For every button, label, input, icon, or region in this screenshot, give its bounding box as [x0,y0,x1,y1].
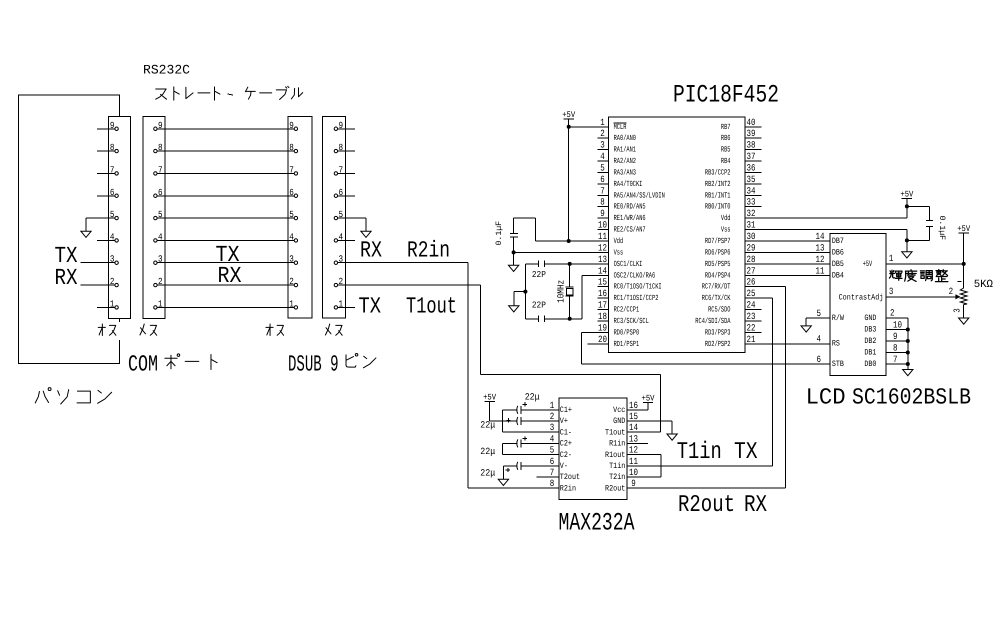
svg-text:22: 22 [747,322,756,333]
label 22u C8 [480,468,495,479]
svg-text:12: 12 [598,242,607,253]
wire OSC2 pin14 down to osc return [545,275,598,319]
svg-text:OSC1/CLKI: OSC1/CLKI [614,260,643,269]
label 0.1uF (left) [495,221,504,246]
svg-text:RS: RS [832,340,840,349]
svg-text:2: 2 [600,128,605,139]
svg-text:3: 3 [889,286,894,297]
ground at U1 Vss [508,265,518,271]
wire Vss to ground [513,252,515,265]
label 22P (top) [532,270,546,280]
svg-text:DB2: DB2 [864,337,876,346]
svg-text:25: 25 [747,288,756,299]
connector J3 DSUB9 male (オス) [288,117,312,319]
svg-text:30: 30 [747,231,756,242]
svg-text:39: 39 [747,128,756,139]
label RX (device side) [360,238,382,264]
wire ContrastAdj pin3 to pot wiper [886,286,956,297]
label メス under J4 [325,324,342,335]
svg-text:5: 5 [550,445,555,456]
svg-text:13: 13 [598,254,607,265]
svg-text:MCLR: MCLR [614,123,627,132]
svg-text:9: 9 [893,331,898,342]
IC U2 MAX232A body [559,398,627,500]
svg-text:0.1µF: 0.1µF [937,216,946,241]
svg-text:DB7: DB7 [832,237,844,246]
svg-text:DSUB 9: DSUB 9 [288,352,339,378]
+5V supply at U2 V+ [483,392,497,402]
svg-text:17: 17 [598,300,607,311]
svg-text:Vcc: Vcc [613,406,625,415]
svg-text:RA1/AN1: RA1/AN1 [614,146,637,155]
wire U1 pin28 to LCD DB5 [745,263,830,265]
svg-text:9: 9 [631,478,636,489]
wire cable conductor pin 6 [158,195,294,197]
svg-text:RB1/INT1: RB1/INT1 [705,191,731,200]
wire cable conductor pin 9 [158,128,294,130]
pot wiper arrow [955,294,960,299]
svg-text:RX: RX [360,238,382,264]
svg-text:6: 6 [289,187,294,198]
svg-text:10: 10 [629,467,638,478]
wire U1 pin31 Vss to ground [745,230,907,252]
svg-text:12: 12 [629,445,638,456]
svg-text:V+: V+ [560,417,568,426]
svg-text:5: 5 [289,209,294,220]
svg-text:4: 4 [289,231,294,242]
svg-text:10MHz: 10MHz [556,280,567,303]
wire OSC1 pin13 [545,263,598,265]
svg-text:8: 8 [600,197,605,208]
wire Vss pin12 [514,251,598,253]
svg-text:RB0/INT0: RB0/INT0 [705,203,731,212]
ground arrow at J4 pin5 [361,231,371,237]
wire +5V rail to pin1 and Vdd pin11 [569,119,598,241]
wire cable conductor pin 8 [158,150,294,152]
label オス under J1 [98,324,116,336]
svg-text:18: 18 [598,311,607,322]
svg-text:T2out: T2out [560,473,580,482]
junction dot +5V/C4 branch [905,204,909,208]
wire +5V to pot top [963,233,965,288]
svg-text:5: 5 [600,162,605,173]
capacitor C4 0.1uF (LCD decoupling) [907,206,933,240]
wire U1 pin27 to LCD DB4 [745,274,830,276]
svg-text:1: 1 [110,298,115,309]
svg-text:RE1/WR/AN6: RE1/WR/AN6 [614,214,646,223]
wire cable conductor pin 4 [158,239,294,241]
wire J4 pin5 to signal-ground arrow [338,218,366,231]
wire GND pin15 to ground [641,421,672,434]
label RS232C [143,63,190,78]
svg-text:RB7: RB7 [721,123,731,132]
svg-text:TX: TX [359,293,382,319]
svg-text:R2in: R2in [560,484,576,493]
wire cable conductor pin 3 [158,262,294,264]
pot pin label 2 [949,286,954,297]
svg-text:RX: RX [218,263,242,289]
wire R1in pin13 stub [641,442,648,444]
svg-text:5: 5 [816,308,821,319]
wire U1 pin26 RC7/RX to MAX232 R2out [627,287,785,489]
connector J1 DSUB9 male on PC (オス) [97,116,131,318]
svg-text:7: 7 [110,164,115,175]
svg-text:T1in: T1in [609,462,625,471]
wire U1 pin32 Vdd to +5V rail [745,198,907,218]
wire R/W to ground [806,318,830,326]
svg-text:27: 27 [747,265,756,276]
svg-text:RD4/PSP4: RD4/PSP4 [705,271,731,280]
crystal X1 10MHz [566,264,574,319]
svg-text:6: 6 [816,354,821,365]
svg-text:36: 36 [747,162,756,173]
svg-text:T1out: T1out [406,293,457,319]
svg-text:14: 14 [598,265,607,276]
svg-text:RC1/T1OSI/CCP2: RC1/T1OSI/CCP2 [614,294,659,303]
wire Vcc pin16 [641,403,648,410]
+5V supply at U2 Vcc pin16 [642,394,656,404]
svg-text:20: 20 [598,334,607,345]
ground at C8 [498,479,508,485]
+5V supply symbol right [900,189,914,199]
J5 left stubs numbers and names [816,231,844,369]
wire cable conductor pin 2 [158,284,294,286]
wire Vdd pin11 [536,240,598,242]
svg-text:RB3/CCP2: RB3/CCP2 [705,168,731,177]
junction dot OSC2/crystal [568,317,572,321]
svg-text:RB2/INT2: RB2/INT2 [705,180,731,189]
svg-text:11: 11 [629,456,638,467]
svg-text:4: 4 [110,231,115,242]
svg-text:RA2/AN2: RA2/AN2 [614,157,637,166]
svg-text:6: 6 [600,174,605,185]
svg-text:11: 11 [598,231,607,242]
capacitor C5 22u (C1+/C1-) [503,402,548,432]
svg-text:TX: TX [734,439,758,466]
svg-text:9: 9 [110,120,115,131]
svg-text:15: 15 [598,277,607,288]
svg-text:Vdd: Vdd [614,237,624,246]
svg-text:28: 28 [747,254,756,265]
capacitor C1 0.1uF (U1 decoupling) [510,218,536,252]
svg-text:22P: 22P [532,270,546,280]
wire U1 pin21 RD2 to LCD RS [745,343,830,345]
+5V supply symbol at U1 MCLR [562,110,576,120]
connector J2 DSUB9 female COM port (メス) [143,116,165,318]
svg-text:11: 11 [816,265,825,276]
wire T1out : J4 pin2 to MAX232 pin14 [338,285,661,432]
svg-text:1: 1 [889,253,894,264]
svg-text:RC5/SDO: RC5/SDO [708,306,731,315]
svg-text:DB4: DB4 [832,271,844,280]
svg-text:SC1602BSLB: SC1602BSLB [852,385,971,411]
svg-text:R1out: R1out [605,451,625,460]
svg-text:40: 40 [747,117,756,128]
svg-text:T2in: T2in [609,473,625,482]
U1 left pins 1-20 stubs, numbers, names [588,117,666,349]
svg-text:C1-: C1- [560,428,572,437]
svg-text:3: 3 [600,140,605,151]
junction dot Vss/C4 [905,238,909,242]
capacitor C7 22u (C2+/C2-) [503,436,548,454]
capacitor C8 22u (V- to GND) [503,462,547,480]
IC U1 PIC18F452 body [609,117,745,353]
svg-text:13: 13 [816,242,825,253]
label TX (device side) [359,293,382,319]
label R2in [407,238,450,264]
label R2out RX [678,492,767,519]
pot pin label 1 (rotated) [958,280,962,282]
wire R1out pin12 to T2in pin10 [641,455,661,477]
svg-text:4: 4 [600,151,605,162]
svg-text:10: 10 [598,220,607,231]
label LCD [806,385,846,411]
ground arrow at J1 pin5 [81,231,91,237]
U2 right pins 9-16 stubs, numbers, names [605,400,641,494]
svg-text:15: 15 [629,411,638,422]
label 5KOhm [974,279,994,291]
svg-text:RC7/RX/DT: RC7/RX/DT [702,283,731,292]
svg-text:8: 8 [110,142,115,153]
svg-text:7: 7 [550,467,555,478]
connector J5 LCD SC1602BSLB body [830,234,886,376]
svg-text:DB0: DB0 [864,360,876,369]
label メス under J2 [140,324,157,335]
svg-text:DB5: DB5 [832,260,844,269]
svg-text:ContrastAdj: ContrastAdj [839,293,884,302]
svg-text:6: 6 [110,187,115,198]
svg-text:RD0/PSP0: RD0/PSP0 [614,328,640,337]
svg-text:Vss: Vss [721,226,731,235]
junction dot 22P common [523,290,527,294]
svg-text:19: 19 [598,322,607,333]
label RX (cable) [218,263,242,289]
potentiometer VR1 5KOhm body [960,288,967,318]
svg-text:29: 29 [747,242,756,253]
label TX (PC side) [55,243,78,269]
svg-text:34: 34 [747,185,756,196]
U2 left pins 1-8 stubs, numbers, names [537,400,580,494]
svg-text:4: 4 [816,334,821,345]
label T1out [406,293,457,319]
U1 right pins 21-40 stubs, numbers, names [695,117,761,349]
svg-text:7: 7 [893,354,898,365]
connector J4 DSUB9 female (メス) [323,117,356,319]
svg-text:6: 6 [550,456,555,467]
svg-text:1: 1 [550,400,555,411]
svg-text:C1+: C1+ [560,406,572,415]
svg-text:1: 1 [600,117,605,128]
svg-text:RE0/RD/AN5: RE0/RD/AN5 [614,203,646,212]
label SC1602BSLB [852,385,971,411]
svg-text:LCD: LCD [806,385,846,411]
label 22P (bottom) [532,301,546,311]
capacitor C2 22P (OSC1) [525,260,544,267]
svg-text:RX: RX [55,265,78,291]
svg-text:22μ: 22μ [480,446,495,457]
ground at LCD DB bus [903,370,913,376]
svg-text:C2-: C2- [560,451,572,460]
label 22u C7 [480,446,495,457]
label TX (cable) [216,242,240,268]
svg-text:3: 3 [550,422,555,433]
svg-text:R2in: R2in [407,238,450,264]
svg-text:22P: 22P [532,301,546,311]
svg-text:V-: V- [560,462,568,471]
svg-text:OSC2/CLKO/RA6: OSC2/CLKO/RA6 [614,271,656,280]
svg-text:RD3/PSP3: RD3/PSP3 [705,328,731,337]
junction dot pin1 [567,125,571,129]
J5 GND/DB3-DB0 bus to ground [864,308,909,370]
svg-text:RX: RX [744,492,767,519]
PC enclosure box (パソコン) [19,95,120,364]
+5V supply at pot [957,224,971,234]
svg-text:DB3: DB3 [864,326,876,335]
svg-text:MAX232A: MAX232A [559,508,635,537]
svg-text:8: 8 [550,478,555,489]
svg-text:32: 32 [747,208,756,219]
J5 right side: +5V pin1 wire [863,253,964,269]
svg-text:16: 16 [629,400,638,411]
svg-text:14: 14 [629,422,638,433]
svg-text:RC3/SCK/SCL: RC3/SCK/SCL [614,317,649,326]
label ContrastAdj [839,293,884,302]
ground at U1 pin31 [902,252,912,258]
svg-text:RA0/AN0: RA0/AN0 [614,134,637,143]
svg-text:31: 31 [747,220,756,231]
ground at pot [959,318,969,324]
wire J1 pin5 to signal-ground arrow [86,218,115,231]
svg-text:5KΩ: 5KΩ [974,279,994,291]
svg-text:9: 9 [289,120,294,131]
wire cable conductor pin 7 [158,172,294,174]
svg-text:2: 2 [289,276,294,287]
svg-text:RD1/PSP1: RD1/PSP1 [614,340,640,349]
svg-text:13: 13 [629,433,638,444]
label MAX232A [559,508,635,537]
svg-text:3: 3 [953,308,963,313]
label 輝度調整 [889,270,947,282]
svg-text:RS232C: RS232C [143,63,190,78]
svg-text:35: 35 [747,174,756,185]
junction dot OSC1/crystal [568,262,572,266]
junction dot Vdd pin11 [567,239,571,243]
svg-text:+5V: +5V [863,260,873,269]
svg-text:23: 23 [747,311,756,322]
wire cable conductor pin 5 [158,217,294,219]
svg-text:RD2/PSP2: RD2/PSP2 [705,340,731,349]
svg-text:GND: GND [613,417,625,426]
svg-text:RB4: RB4 [721,157,731,166]
junction dot LCD +5V [962,262,966,266]
svg-text:PIC18F452: PIC18F452 [673,81,779,110]
svg-text:Vdd: Vdd [721,214,731,223]
svg-text:22μ: 22μ [525,392,540,403]
label T1in TX [677,439,758,466]
wire U1 pin30 to LCD DB7 [745,240,830,242]
svg-text:R1in: R1in [609,440,625,449]
svg-text:RD5/PSP5: RD5/PSP5 [705,260,731,269]
svg-text:RD6/PSP6: RD6/PSP6 [705,248,731,257]
svg-text:GND: GND [864,314,876,323]
label 0.1uF (right, rotated) [937,216,946,241]
wire 22P common to ground [514,292,526,306]
svg-text:RA3/AN3: RA3/AN3 [614,168,637,177]
label 10MHz (rotated) [556,280,567,303]
svg-text:16: 16 [598,288,607,299]
svg-text:DB1: DB1 [864,349,876,358]
label 22u C5 [525,392,540,403]
label PIC18F452 [673,81,779,110]
svg-text:R2out: R2out [678,492,735,519]
svg-text:7: 7 [600,185,605,196]
label COMポート [128,352,217,378]
label 22u C6 [480,420,495,431]
svg-text:4: 4 [550,433,555,444]
svg-text:37: 37 [747,151,756,162]
wire J1 pin2 stub to RX label [81,284,115,286]
svg-text:RC2/CCP1: RC2/CCP1 [614,306,640,315]
svg-text:9: 9 [600,208,605,219]
svg-text:14: 14 [816,231,825,242]
svg-text:COM: COM [128,352,158,378]
wire J1 pin3 stub to TX label [81,262,115,264]
svg-text:2: 2 [890,308,895,319]
svg-text:8: 8 [893,343,898,354]
label RX (PC side) [55,265,78,291]
svg-text:21: 21 [747,334,756,345]
wire R2in : J4 pin3 to MAX232 pin8 [338,263,559,488]
svg-text:RA4/T0CKI: RA4/T0CKI [614,180,643,189]
svg-text:3: 3 [289,254,294,265]
svg-text:T1in: T1in [677,439,722,466]
svg-text:RC6/TX/CK: RC6/TX/CK [702,294,731,303]
capacitor C3 22P (OSC2) [525,315,544,322]
svg-text:RD7/PSP7: RD7/PSP7 [705,237,731,246]
svg-text:1: 1 [289,298,294,309]
wire cable conductor pin 1 [158,306,294,308]
svg-text:10: 10 [893,320,902,331]
svg-text:22μ: 22μ [480,420,495,431]
wire 22P common leg [524,264,526,319]
wire U1 pin25 RC6/TX to MAX232 T1in [627,298,773,466]
ground at U2 pin15 [667,434,677,440]
svg-text:T1out: T1out [605,428,625,437]
svg-text:33: 33 [747,197,756,208]
svg-text:22μ: 22μ [480,468,495,479]
svg-text:RC0/T1OSO/T1CKI: RC0/T1OSO/T1CKI [614,283,662,292]
svg-text:0.1µF: 0.1µF [495,221,504,246]
svg-text:7: 7 [289,164,294,175]
ground at R/W [801,326,811,332]
svg-text:C2+: C2+ [560,440,572,449]
svg-text:8: 8 [289,142,294,153]
svg-text:2: 2 [550,411,555,422]
svg-text:RB6: RB6 [721,134,731,143]
label ストレート ケーブル [156,86,303,100]
svg-text:R/W: R/W [832,314,844,323]
svg-text:RC4/SDI/SDA: RC4/SDI/SDA [695,317,730,326]
junction dot Vss pin12 [512,250,516,254]
svg-text:R2out: R2out [605,484,625,493]
pot pin label 3 (rotated) [953,308,963,313]
svg-text:Vss: Vss [614,248,624,257]
svg-text:RB5: RB5 [721,146,731,155]
wire U1 pin29 to LCD DB6 [745,251,830,253]
svg-text:RE2/CS/AN7: RE2/CS/AN7 [614,226,646,235]
svg-text:2: 2 [949,286,954,297]
label パソコン [35,388,111,404]
